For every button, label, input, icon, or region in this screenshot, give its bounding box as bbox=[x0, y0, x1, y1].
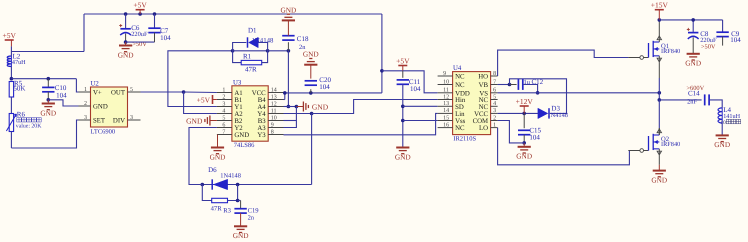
wire D1 left riser bbox=[233, 43, 247, 51]
junction C18 bbox=[287, 49, 291, 53]
wire +5V mid stem bbox=[402, 66, 404, 71]
wire +5V join bbox=[10, 46, 12, 51]
svg-text:12: 12 bbox=[271, 101, 277, 107]
wire gnd stem C15 bbox=[523, 143, 525, 147]
inductor L2 bbox=[7, 56, 11, 67]
svg-text:3: 3 bbox=[493, 108, 496, 114]
junction VB bbox=[508, 83, 512, 87]
label R6 chinese bbox=[17, 118, 41, 122]
wire B4 tie up to VCC bbox=[284, 93, 286, 100]
wire Y4 to Hin bbox=[312, 100, 438, 114]
svg-text:50K: 50K bbox=[13, 85, 25, 93]
svg-text:GND: GND bbox=[685, 59, 701, 68]
svg-text:2nF: 2nF bbox=[687, 99, 697, 106]
power +12V bbox=[516, 97, 534, 106]
wire C10 stem bottom bbox=[47, 92, 49, 100]
capacitor C20 bbox=[305, 81, 317, 85]
wire across D1 bbox=[233, 50, 268, 52]
svg-text:DIV: DIV bbox=[113, 118, 125, 125]
inductor L4 bbox=[718, 108, 722, 123]
svg-text:47R: 47R bbox=[211, 206, 223, 213]
wire bbox=[47, 100, 49, 104]
wire D1 right riser bbox=[258, 43, 267, 51]
capacitor C12 bbox=[518, 79, 522, 90]
driver U4 IR2110S bbox=[438, 65, 498, 143]
wire bbox=[658, 20, 660, 35]
wire C6 bottom bbox=[125, 34, 127, 43]
junction +15V rail bbox=[658, 18, 662, 22]
wire +5V to rail bbox=[11, 51, 84, 53]
resistor R5 bbox=[9, 82, 13, 98]
svg-text:4: 4 bbox=[222, 108, 225, 114]
svg-text:GND: GND bbox=[93, 104, 108, 111]
wire R6 to U2 SET bbox=[11, 120, 78, 148]
wire +15V stem bbox=[658, 10, 660, 20]
svg-text:D1: D1 bbox=[248, 27, 257, 35]
svg-text:Y4: Y4 bbox=[257, 111, 266, 118]
svg-text:47uH: 47uH bbox=[12, 59, 26, 66]
wire U3 VCC net bbox=[284, 92, 382, 94]
wire R3 right riser bbox=[228, 185, 238, 201]
wire node to U2 V+ bbox=[11, 78, 76, 80]
ground above C20 bbox=[303, 50, 319, 65]
ground C19 bbox=[233, 226, 249, 240]
wire +5V node A bbox=[382, 70, 403, 72]
svg-text:Y3: Y3 bbox=[257, 132, 266, 139]
wire +5V top rail bbox=[84, 13, 382, 15]
wire R3 left riser bbox=[202, 185, 211, 201]
svg-text:GND: GND bbox=[651, 175, 667, 184]
svg-text:VCC: VCC bbox=[252, 90, 266, 97]
wire gnd tie to B3 bbox=[284, 120, 297, 122]
junction output to C14 bbox=[658, 98, 662, 102]
capacitor C15 bbox=[518, 130, 530, 134]
junction C18/A4 gnd wire bbox=[287, 105, 291, 109]
svg-text:A2: A2 bbox=[234, 111, 243, 118]
junction C8 bbox=[691, 18, 695, 22]
capacitor C9 bbox=[716, 32, 728, 36]
junction Y4 branch bbox=[310, 112, 314, 116]
wire C6-C7 bottom link bbox=[126, 41, 155, 43]
svg-text:1: 1 bbox=[222, 87, 225, 93]
svg-text:10: 10 bbox=[271, 115, 277, 121]
wire C12 left lead bbox=[510, 84, 517, 86]
svg-text:GND: GND bbox=[303, 50, 319, 59]
wire VCC +12V bbox=[498, 112, 538, 114]
svg-text:104: 104 bbox=[529, 133, 540, 141]
ground mid bbox=[395, 148, 411, 162]
svg-text:SD: SD bbox=[455, 104, 464, 111]
svg-text:141uH: 141uH bbox=[723, 113, 740, 120]
svg-text:B2: B2 bbox=[234, 118, 243, 125]
junction rail drop bbox=[380, 69, 384, 73]
wire B4 stubjoin bbox=[284, 99, 285, 101]
wire bbox=[10, 40, 12, 46]
junction SD gnd bbox=[401, 105, 405, 109]
wire OUT to U3 A1 bbox=[184, 91, 217, 94]
junction C10/GND/U2pin2 bbox=[47, 98, 51, 102]
svg-text:74LS86: 74LS86 bbox=[234, 142, 255, 149]
wire Y1 to D1/R1 left node bbox=[168, 51, 233, 107]
svg-text:C14: C14 bbox=[688, 90, 700, 98]
svg-text:IRF840: IRF840 bbox=[661, 48, 680, 55]
wire R6 down bbox=[10, 132, 12, 149]
svg-text:>50V: >50V bbox=[701, 43, 716, 50]
svg-text:C18: C18 bbox=[297, 35, 309, 43]
svg-text:GND: GND bbox=[516, 152, 532, 161]
svg-text:6: 6 bbox=[222, 122, 225, 128]
wire C11 top stem bbox=[402, 71, 404, 78]
wire VB to D3 cathode bbox=[510, 79, 567, 114]
svg-text:R1: R1 bbox=[243, 53, 252, 61]
svg-text:3: 3 bbox=[222, 101, 225, 107]
svg-text:GND: GND bbox=[186, 116, 203, 125]
ground U3 pin7 bbox=[210, 148, 226, 162]
junction D1/R1 left bbox=[231, 49, 235, 53]
wire R1 right riser bbox=[262, 51, 268, 63]
svg-text:9: 9 bbox=[443, 71, 446, 77]
svg-text:5: 5 bbox=[222, 115, 225, 121]
transistor Q2 IRF840 bbox=[628, 128, 680, 156]
svg-text:VCC: VCC bbox=[474, 111, 488, 118]
junction +5V mid bbox=[138, 12, 142, 16]
svg-text:+5V: +5V bbox=[396, 57, 410, 66]
svg-text:V+: V+ bbox=[93, 90, 102, 97]
capacitor C10 bbox=[42, 87, 54, 91]
svg-text:U3: U3 bbox=[233, 79, 242, 86]
junction C7 top bbox=[153, 12, 157, 16]
svg-text:Vss: Vss bbox=[455, 118, 466, 125]
wire VB stub ext bbox=[498, 84, 510, 86]
svg-text:14: 14 bbox=[443, 108, 449, 114]
svg-text:D6: D6 bbox=[208, 166, 217, 174]
svg-text:2n: 2n bbox=[248, 215, 255, 222]
svg-text:3: 3 bbox=[130, 115, 133, 121]
junction B4 VCC tie bbox=[283, 91, 287, 95]
svg-text:15: 15 bbox=[443, 115, 449, 121]
wire output down to Q2 bbox=[658, 100, 660, 128]
junction C20 bbox=[309, 91, 313, 95]
wire C10 stem top bbox=[47, 79, 49, 88]
svg-text:A1: A1 bbox=[234, 90, 242, 97]
wire A4 to gnd port bbox=[284, 106, 297, 108]
svg-text:47R: 47R bbox=[245, 66, 257, 74]
svg-text:HO: HO bbox=[478, 74, 488, 81]
svg-text:LTC6900: LTC6900 bbox=[91, 129, 116, 136]
resistor R1 bbox=[241, 60, 262, 64]
wire bbox=[658, 165, 660, 171]
svg-text:104: 104 bbox=[160, 34, 171, 42]
wire bbox=[658, 128, 660, 135]
wire C12 right to VS bbox=[523, 85, 538, 93]
ground C6/C7 bbox=[118, 46, 134, 60]
xor U3 74LS86 bbox=[217, 79, 284, 149]
svg-text:GND: GND bbox=[233, 231, 249, 240]
wire C18 to gnd net bbox=[287, 51, 289, 107]
wire Q1 source down bbox=[658, 63, 660, 78]
svg-text:8: 8 bbox=[493, 71, 496, 77]
wire C19 link bbox=[238, 200, 241, 202]
power +5V left bbox=[2, 31, 16, 40]
svg-text:1: 1 bbox=[493, 122, 496, 128]
svg-text:11: 11 bbox=[271, 108, 277, 114]
junction C12/VS bbox=[536, 91, 540, 95]
capacitor C19 bbox=[234, 209, 246, 213]
wire Y2 to delay loop bbox=[189, 128, 217, 185]
svg-text:SET: SET bbox=[93, 118, 106, 125]
svg-text:IR2110S: IR2110S bbox=[453, 136, 476, 143]
wire C15 stem bbox=[523, 113, 525, 128]
wire to U2 GND pin bbox=[48, 100, 78, 106]
svg-text:GND: GND bbox=[210, 152, 226, 161]
svg-text:A4: A4 bbox=[257, 104, 266, 111]
capacitor C8 polarized bbox=[687, 28, 699, 39]
svg-text:13: 13 bbox=[443, 101, 449, 107]
wire +5V to VDD bbox=[403, 71, 438, 93]
svg-text:104: 104 bbox=[730, 36, 741, 44]
ground C15 bbox=[516, 147, 532, 161]
wire C6 top stem bbox=[125, 14, 127, 28]
junction C19 bbox=[236, 199, 240, 203]
ground Q2 bbox=[651, 171, 667, 185]
svg-text:9: 9 bbox=[271, 122, 274, 128]
ground port at U3 A4 bbox=[296, 102, 328, 112]
svg-text:LO: LO bbox=[479, 125, 488, 132]
wire Q1 source down2 bbox=[658, 78, 660, 93]
junction +12V/C15 bbox=[522, 112, 526, 116]
junction C15/COM gnd bbox=[522, 141, 526, 145]
wire gnd stem C6 bbox=[125, 42, 127, 45]
wire R5 to R6 bbox=[10, 97, 12, 114]
wire to C18 node bbox=[268, 50, 289, 52]
diode D3 1N4148 bbox=[538, 108, 549, 118]
resistor R6 potentiometer bbox=[9, 114, 13, 132]
wire bbox=[217, 135, 219, 148]
svg-text:+5V: +5V bbox=[133, 1, 147, 10]
transistor Q1 IRF840 bbox=[628, 35, 680, 63]
ground C8 bbox=[685, 54, 701, 68]
svg-text:1: 1 bbox=[84, 87, 87, 93]
wire VS to output node bbox=[498, 92, 660, 94]
power +15V bbox=[651, 1, 669, 10]
svg-text:U4: U4 bbox=[453, 65, 462, 72]
wire rail left drop bbox=[83, 14, 85, 52]
svg-text:Y2: Y2 bbox=[234, 125, 243, 132]
power +5V mid bbox=[396, 57, 410, 66]
wire Y3 to Lin bbox=[284, 113, 438, 134]
svg-text:Y1: Y1 bbox=[234, 104, 242, 111]
wire L2 top lead bbox=[10, 52, 12, 57]
wire gnd tie to A3 bbox=[284, 107, 297, 128]
svg-text:GND: GND bbox=[118, 50, 134, 59]
wire C9 top stem bbox=[722, 20, 724, 32]
label L4 chinese bbox=[726, 119, 740, 123]
wire L2 to node bbox=[10, 67, 12, 79]
svg-text:5: 5 bbox=[130, 87, 133, 93]
junction D6 left bbox=[201, 183, 205, 187]
capacitor C18 bbox=[282, 36, 294, 40]
svg-text:5: 5 bbox=[493, 94, 496, 100]
wire C15 bottom stem bbox=[523, 135, 525, 143]
diode D1 1N4148 bbox=[248, 37, 259, 47]
svg-text:7: 7 bbox=[222, 129, 225, 135]
junction Vss gnd bbox=[401, 119, 405, 123]
svg-text:14: 14 bbox=[271, 87, 277, 93]
svg-text:11: 11 bbox=[443, 88, 449, 94]
svg-text:16: 16 bbox=[443, 122, 449, 128]
svg-text:B3: B3 bbox=[258, 118, 267, 125]
svg-text:1N4148: 1N4148 bbox=[547, 112, 568, 119]
wire Y4 out bbox=[284, 113, 312, 115]
svg-text:C19: C19 bbox=[248, 207, 260, 214]
svg-text:OUT: OUT bbox=[111, 90, 126, 97]
ground port at U3 B2 bbox=[186, 116, 217, 126]
svg-text:NC: NC bbox=[479, 104, 489, 111]
wire HO to Q1 gate bbox=[498, 50, 629, 76]
svg-text:2: 2 bbox=[222, 94, 225, 100]
svg-text:Lin: Lin bbox=[455, 111, 465, 118]
op-amp U2 LTC6900 bbox=[79, 81, 141, 136]
wire COM to gnd node bbox=[498, 121, 525, 143]
wire bbox=[658, 156, 660, 165]
svg-text:A3: A3 bbox=[257, 125, 266, 132]
wire C8 gnd stem bbox=[692, 37, 694, 53]
svg-text:220uF: 220uF bbox=[131, 31, 148, 38]
svg-text:+15V: +15V bbox=[651, 1, 669, 10]
svg-text:GND: GND bbox=[40, 108, 56, 117]
wire C11 to ground chain bbox=[402, 84, 404, 147]
svg-text:1N4148: 1N4148 bbox=[252, 37, 275, 44]
svg-text:U2: U2 bbox=[91, 81, 100, 88]
capacitor C11 bbox=[397, 80, 409, 84]
svg-text:6: 6 bbox=[493, 88, 496, 94]
wire SD bbox=[403, 105, 438, 107]
wire C18 gnd stem bbox=[287, 21, 289, 36]
svg-text:GND: GND bbox=[714, 140, 730, 149]
power +5V at U3 B1 bbox=[197, 95, 213, 104]
svg-text:B4: B4 bbox=[258, 97, 267, 104]
svg-text:104: 104 bbox=[56, 92, 67, 100]
wire jog to U2 pin1 bbox=[76, 79, 78, 92]
junction A4 gnd bbox=[295, 105, 299, 109]
wire output node bbox=[658, 93, 660, 100]
svg-text:NC: NC bbox=[455, 74, 465, 81]
svg-text:VB: VB bbox=[479, 82, 489, 89]
svg-text:+5V: +5V bbox=[2, 31, 16, 40]
wire L4 down bbox=[721, 123, 723, 135]
junction C6 top bbox=[124, 12, 128, 16]
junction L2/R5/C10 node bbox=[10, 77, 14, 81]
svg-text:R3: R3 bbox=[223, 208, 231, 215]
wire R1 left riser bbox=[233, 51, 242, 63]
svg-text:NC: NC bbox=[455, 125, 465, 132]
junction D1/R1 right bbox=[266, 49, 270, 53]
svg-text:GND: GND bbox=[280, 5, 296, 14]
diode D6 1N4148 bbox=[212, 179, 227, 189]
junction VS output bbox=[658, 91, 662, 95]
resistor R3 bbox=[212, 198, 228, 202]
junction C10 top bbox=[47, 77, 51, 81]
wire C9 bottom stub bbox=[722, 37, 724, 46]
svg-text:+5V: +5V bbox=[197, 95, 211, 104]
svg-text:GND: GND bbox=[395, 152, 411, 161]
wire U2 OUT bbox=[141, 91, 184, 93]
wire C8 top stem bbox=[692, 20, 694, 32]
capacitor C7 bbox=[148, 28, 160, 32]
wire +5V port stub bbox=[213, 99, 217, 101]
svg-text:GND: GND bbox=[234, 132, 249, 139]
wire C20 stem bbox=[310, 89, 312, 93]
wire to C14 bbox=[659, 99, 701, 101]
wire Vss bbox=[403, 120, 438, 122]
svg-text:1N4148: 1N4148 bbox=[220, 173, 241, 180]
svg-text:value: 20K: value: 20K bbox=[16, 123, 42, 130]
svg-text:10: 10 bbox=[443, 79, 449, 85]
wire C7 bottom bbox=[154, 33, 156, 43]
wire C14 to L4 bbox=[709, 100, 722, 108]
svg-text:104: 104 bbox=[410, 85, 421, 93]
svg-text:2: 2 bbox=[493, 115, 496, 121]
ground C10 bbox=[40, 104, 56, 118]
svg-text:COM: COM bbox=[473, 118, 489, 125]
wire rail drop to VCC net bbox=[381, 14, 383, 93]
wire C18 stem bbox=[287, 42, 289, 51]
ground L4 bbox=[714, 135, 730, 149]
svg-text:3: 3 bbox=[84, 115, 87, 121]
junction D6 right bbox=[236, 183, 240, 187]
ground above C18 bbox=[280, 5, 296, 20]
svg-text:7: 7 bbox=[493, 79, 496, 85]
svg-text:GND: GND bbox=[312, 102, 329, 111]
power +5V top bbox=[133, 1, 147, 10]
svg-text:R6: R6 bbox=[17, 111, 26, 119]
svg-text:B1: B1 bbox=[234, 97, 242, 104]
svg-text:10: 10 bbox=[721, 120, 727, 126]
wire C20 gnd stem bbox=[310, 65, 312, 79]
svg-text:2: 2 bbox=[84, 101, 87, 107]
svg-text:4: 4 bbox=[493, 101, 496, 107]
wire LO to Q2 gate bbox=[498, 128, 630, 165]
svg-text:IRF840: IRF840 bbox=[661, 141, 680, 148]
potentiometer arrow R6 bbox=[6, 114, 16, 131]
capacitor C14 bbox=[705, 94, 709, 105]
svg-text:NC: NC bbox=[455, 82, 465, 89]
wire +15V rail right bbox=[659, 19, 722, 21]
capacitor C6 polarized bbox=[119, 24, 131, 35]
junction C6/C7 gnd node bbox=[124, 40, 128, 44]
junction OUT branch bbox=[182, 90, 186, 94]
wire OUT to U3 A2 bbox=[184, 92, 217, 114]
wire +5V stem bbox=[139, 10, 141, 14]
svg-text:104: 104 bbox=[319, 83, 330, 91]
wire C7 top stem bbox=[154, 14, 156, 28]
wire +12V stem bbox=[523, 106, 525, 113]
wire delay loop bottom bbox=[202, 184, 311, 186]
svg-text:8: 8 bbox=[271, 129, 274, 135]
wire Y4 down to delay loop bbox=[311, 114, 313, 185]
wire C19 stem bbox=[240, 201, 242, 209]
svg-text:+12V: +12V bbox=[516, 97, 534, 106]
wire C19 gnd stem bbox=[240, 213, 242, 226]
svg-text:13: 13 bbox=[271, 94, 277, 100]
svg-text:12: 12 bbox=[443, 94, 449, 100]
